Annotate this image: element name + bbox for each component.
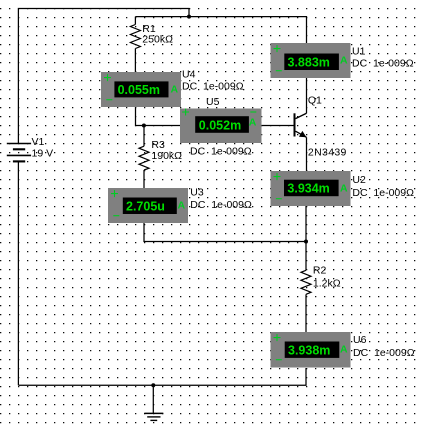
svg-text:3.938m: 3.938m [288,344,330,358]
svg-text:V1: V1 [32,136,45,148]
svg-text:U6: U6 [353,334,367,346]
svg-text:A: A [340,343,348,355]
svg-text:2N3439: 2N3439 [308,147,347,159]
svg-text:U5: U5 [206,96,220,108]
svg-text:U4: U4 [182,68,196,80]
wire left rail [17,161,19,385]
transistor Q1 [294,95,347,159]
ammeter U4 [101,68,244,107]
svg-text:A: A [171,83,179,95]
resistor R3 [139,126,182,189]
wire U2 to junction [305,206,307,242]
svg-text:A: A [178,199,186,211]
battery V1 [7,136,53,161]
svg-text:2.705u: 2.705u [126,199,165,213]
wire U6 to bottom rail [18,368,306,385]
junction node B [142,124,146,128]
ammeter U3 [108,187,252,224]
ammeter U6 [271,332,415,368]
svg-text:DC 1e-009Ω: DC 1e-009Ω [352,58,414,70]
svg-text:DC 1e-009Ω: DC 1e-009Ω [190,199,252,211]
wire top node to U1 [135,17,306,43]
svg-text:DC 1e-009Ω: DC 1e-009Ω [182,81,244,93]
svg-text:DC 1e-009Ω: DC 1e-009Ω [352,187,414,199]
ammeter U1 [271,43,414,78]
svg-text:1.2kΩ: 1.2kΩ [313,278,341,290]
ammeter U2 [271,171,415,206]
wire U3 to emitter node [144,223,306,242]
svg-text:DC 1e-009Ω: DC 1e-009Ω [190,145,252,157]
junction emitter node [304,240,308,244]
svg-text:Q1: Q1 [308,95,322,107]
svg-text:DC 1e-009Ω: DC 1e-009Ω [353,347,415,359]
svg-text:19 V: 19 V [32,147,54,159]
wire U4 to node B [136,107,181,126]
wire R1 to U4 [134,49,136,73]
ground [144,385,163,420]
svg-text:U1: U1 [352,45,366,57]
junction ground node [151,383,155,387]
svg-text:R2: R2 [313,264,327,276]
wire R1 top stub [134,17,136,25]
svg-text:3.934m: 3.934m [287,182,329,196]
ammeter U5 [180,96,262,158]
svg-text:3.883m: 3.883m [288,55,330,69]
svg-text:A: A [340,182,348,194]
wire emitter [306,137,308,171]
wire U5 to base [262,125,294,127]
junction top node [187,15,191,19]
wire collector [306,78,308,113]
svg-text:A: A [340,54,348,66]
wire top-left loop [18,9,189,144]
svg-text:190kΩ: 190kΩ [151,150,182,162]
svg-text:250kΩ: 250kΩ [142,34,173,46]
svg-text:0.052m: 0.052m [199,119,241,133]
resistor R1 [130,23,173,48]
resistor R2 [301,242,341,334]
svg-text:A: A [249,117,257,129]
svg-text:0.055m: 0.055m [118,83,160,97]
svg-text:U2: U2 [352,174,366,186]
svg-text:U3: U3 [190,187,204,199]
